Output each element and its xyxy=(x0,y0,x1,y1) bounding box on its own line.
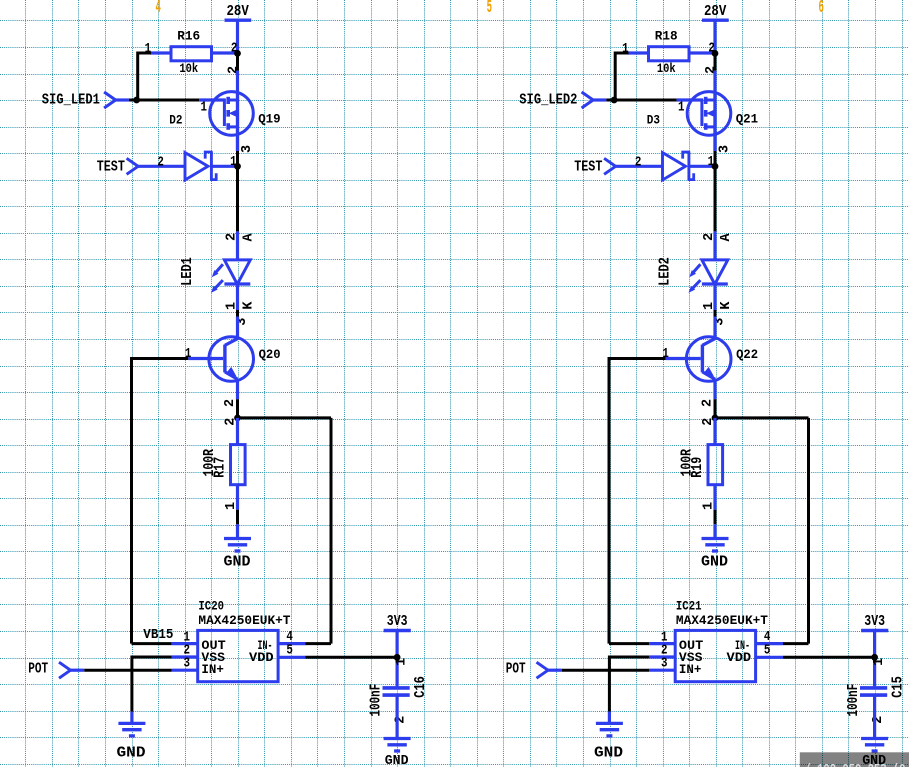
pin K label LED1 cathode (rotated) xyxy=(242,301,257,310)
ground symbol GND below C16 xyxy=(384,739,411,752)
wire R18 pin1 stub xyxy=(628,51,649,54)
pin 2 stub IC20 VSS xyxy=(172,644,198,659)
wire R19 pin2 stub xyxy=(713,418,716,445)
node junction SIG_LED2 xyxy=(611,97,618,104)
wire GND stem xyxy=(713,524,716,537)
overlay status bar (bottom right) xyxy=(800,752,909,767)
pin 3 label Q21 source (rotated) xyxy=(717,145,732,153)
svg-text:Q21: Q21 xyxy=(736,111,758,126)
wire Q19 source to TEST node (black) xyxy=(236,135,239,166)
svg-text:2: 2 xyxy=(701,399,716,407)
frame column label 4 (orange) xyxy=(156,0,161,18)
wire Q22 base down to IC21 OUT (black) xyxy=(609,357,649,644)
wire emitter node to IC21 IN- (black) xyxy=(715,418,809,644)
svg-text:MAX4250EUK+T: MAX4250EUK+T xyxy=(198,613,290,628)
svg-text:2: 2 xyxy=(157,156,164,171)
svg-text:LED1: LED1 xyxy=(180,257,196,286)
power supply 3V3 net xyxy=(861,614,888,686)
pin 1 label LED1 (rotated) xyxy=(224,302,239,310)
pin 3 label Q22 collector (rotated) xyxy=(712,318,727,326)
pin 4 stub IC20 IN- xyxy=(278,630,305,645)
node junction Q22 emitter / R19 xyxy=(712,415,719,422)
svg-text:10k: 10k xyxy=(657,61,676,76)
wire R17 pin1 stub xyxy=(236,485,239,510)
pin 2 label Q21 drain (rotated) xyxy=(704,66,719,74)
net label TEST xyxy=(574,159,602,175)
pin 1 label Q21 gate xyxy=(678,100,685,115)
svg-text:VB15: VB15 xyxy=(143,628,173,643)
pin 3 stub IC20 IN+ xyxy=(172,656,198,671)
pin 3 label Q20 collector (rotated) xyxy=(235,318,250,326)
node junction TEST / LED anode xyxy=(234,163,241,170)
label Q21 xyxy=(736,111,758,126)
svg-text:2: 2 xyxy=(223,399,238,407)
wire Q20 base stub xyxy=(188,357,223,360)
input pin arrow TEST xyxy=(604,158,616,174)
wire Q21 drain stub xyxy=(713,71,716,151)
label GND xyxy=(117,745,146,761)
resistor R19 100R xyxy=(678,445,722,485)
pin 3 stub IC21 IN+ xyxy=(649,656,675,671)
input pin arrow POT xyxy=(537,662,549,678)
wire Q19 drain stub xyxy=(236,71,239,151)
frame column label 5 (orange) xyxy=(487,0,492,18)
label GND xyxy=(224,555,251,571)
input pin arrow SIG_LED2 xyxy=(582,92,594,108)
net label SIG_LED1 xyxy=(42,93,100,109)
svg-text:GND: GND xyxy=(224,555,251,571)
wire IC21 VDD to 3V3 node (black) xyxy=(783,656,875,659)
pin 2 label Q19 drain (rotated) xyxy=(227,66,242,74)
pin 5 stub IC20 VDD xyxy=(278,644,305,659)
wire GND stem below VSS xyxy=(130,712,133,723)
wire SIG_LED1 net xyxy=(116,98,226,101)
label Q19 xyxy=(258,111,280,126)
svg-text:28V: 28V xyxy=(227,4,250,20)
svg-text:1: 1 xyxy=(872,658,887,666)
node junction R16.2 / 28V xyxy=(234,50,241,57)
pin 1 label R17 (rotated) xyxy=(224,502,239,510)
pin 4 stub IC21 IN- xyxy=(756,630,783,645)
op-amp IC20 MAX4250EUK+T xyxy=(198,599,291,682)
svg-text:1: 1 xyxy=(224,502,239,510)
svg-text:/ 102 050 253 (0: / 102 050 253 (0 xyxy=(805,763,906,767)
svg-text:VDD: VDD xyxy=(727,650,752,665)
label GND xyxy=(594,745,623,761)
wire POT net to IC20 IN+ xyxy=(71,669,172,672)
pin 1 label Q22 base xyxy=(662,347,669,362)
wire emitter node to IC20 IN- (black) xyxy=(238,418,332,644)
svg-text:R17: R17 xyxy=(212,457,229,478)
svg-text:LED2: LED2 xyxy=(658,257,674,286)
transistor Q21 P-MOSFET xyxy=(687,92,731,136)
node junction SIG_LED1 xyxy=(133,97,140,104)
svg-text:K: K xyxy=(242,301,257,310)
pin 1 label D3 xyxy=(708,155,715,170)
pin 1 label LED2 (rotated) xyxy=(702,302,717,310)
frame column label 6 (orange) xyxy=(819,0,824,18)
svg-text:IN+: IN+ xyxy=(679,662,702,677)
svg-text:SIG_LED1: SIG_LED1 xyxy=(42,93,100,109)
svg-text:GND: GND xyxy=(117,745,146,761)
svg-text:TEST: TEST xyxy=(97,159,125,175)
zener diode D2 xyxy=(185,151,216,180)
svg-text:D2: D2 xyxy=(169,112,182,127)
wire TEST node to LED2 anode (black) xyxy=(714,166,717,231)
input pin arrow SIG_LED1 xyxy=(104,92,116,108)
op-amp IC21 MAX4250EUK+T xyxy=(675,599,768,682)
wire GND stem xyxy=(236,524,239,537)
wire R19 to GND (black) xyxy=(714,510,717,525)
wire TEST node to LED1 anode (black) xyxy=(236,166,239,231)
svg-text:R19: R19 xyxy=(689,457,706,478)
svg-text:10k: 10k xyxy=(179,61,198,76)
ground symbol GND below IC21 xyxy=(596,723,623,736)
svg-text:VDD: VDD xyxy=(249,650,274,665)
svg-text:GND: GND xyxy=(385,753,409,767)
pin 1 stub IC21 OUT xyxy=(649,630,675,645)
wire Q20 base net (black) xyxy=(132,357,189,360)
zener diode D3 xyxy=(663,151,694,180)
pin 2 label Q20 emitter (rotated) xyxy=(223,399,238,407)
svg-text:1: 1 xyxy=(201,100,208,115)
label LED1 (rotated) xyxy=(180,257,196,286)
pin 1 label C16 (rotated) xyxy=(395,658,410,666)
resistor R18 10k xyxy=(622,29,715,77)
pin 2 label C16 (rotated) xyxy=(393,716,408,724)
ground symbol GND below R19 xyxy=(702,539,729,552)
pin 2 stub IC21 VSS xyxy=(649,644,675,659)
wire C16 to GND xyxy=(396,695,399,737)
ground symbol GND below C15 xyxy=(861,739,888,752)
wire IC20 VSS to GND (black) xyxy=(132,656,172,712)
svg-text:1: 1 xyxy=(395,658,410,666)
resistor R17 100R xyxy=(201,445,245,485)
pin 2 label D3 xyxy=(635,156,642,171)
pin 2 label Q22 emitter (rotated) xyxy=(701,399,716,407)
wire TEST net to D3 anode xyxy=(616,165,663,168)
svg-text:100nF: 100nF xyxy=(845,684,862,717)
svg-text:5: 5 xyxy=(487,0,492,18)
wire R19 pin1 stub xyxy=(713,485,716,510)
input pin arrow POT xyxy=(59,662,71,678)
svg-text:2: 2 xyxy=(635,156,642,171)
svg-text:4: 4 xyxy=(156,0,161,18)
label D3 xyxy=(647,112,660,127)
wire LED2 cathode to Q22 collector (black) xyxy=(714,310,717,317)
pin 2 label LED2 (rotated) xyxy=(702,233,717,241)
svg-text:A: A xyxy=(242,233,257,242)
wire Q20 emitter to node (black) xyxy=(236,399,239,418)
wire Q20 collector stub xyxy=(236,317,239,340)
svg-text:R18: R18 xyxy=(655,29,678,44)
wire R17 to GND (black) xyxy=(236,510,239,525)
wire LED1 anode stub xyxy=(236,231,239,260)
svg-text:2: 2 xyxy=(704,66,719,74)
wire LED2 cathode stub xyxy=(713,286,716,310)
capacitor C15 100nF xyxy=(845,676,907,716)
wire C15 to GND xyxy=(873,695,876,737)
power supply 28V net (x+477.5) xyxy=(702,4,729,53)
wire corner R18.1 to SIG_LED2 net xyxy=(615,52,628,101)
wire Q20 emitter stub xyxy=(236,379,239,399)
label GND xyxy=(385,753,409,767)
wire Q22 base net (black) xyxy=(609,357,666,360)
pin 1 label R19 (rotated) xyxy=(702,502,717,510)
transistor Q19 P-MOSFET xyxy=(210,92,254,136)
pin 2 label R19 (rotated) xyxy=(701,418,716,426)
label Q20 xyxy=(259,347,281,362)
label GND xyxy=(701,555,728,571)
svg-text:Q20: Q20 xyxy=(259,347,281,362)
node junction 3V3 / C15 xyxy=(871,654,878,661)
wire LED1 cathode stub xyxy=(236,286,239,310)
wire R17 pin2 stub xyxy=(236,418,239,445)
label Q22 xyxy=(736,347,758,362)
svg-text:C15: C15 xyxy=(890,676,907,698)
wire Q22 emitter stub xyxy=(713,379,716,399)
wire POT net to IC21 IN+ xyxy=(548,669,649,672)
power supply 28V net (x+0) xyxy=(225,4,252,53)
svg-text:28V: 28V xyxy=(704,4,727,20)
svg-text:TEST: TEST xyxy=(574,159,602,175)
svg-text:GND: GND xyxy=(701,555,728,571)
pin 1 label Q19 gate xyxy=(201,100,208,115)
svg-text:1: 1 xyxy=(224,302,239,310)
net label VB15 xyxy=(143,628,173,643)
svg-text:K: K xyxy=(719,301,734,310)
wire LED2 anode stub xyxy=(713,231,716,260)
svg-text:1: 1 xyxy=(702,502,717,510)
wire Q21 source to TEST node (black) xyxy=(713,135,716,166)
wire 28V node to Q19 drain (black) xyxy=(236,53,239,70)
net label POT xyxy=(28,661,48,677)
svg-text:Q22: Q22 xyxy=(736,347,758,362)
pin 2 label C15 (rotated) xyxy=(871,716,886,724)
wire IC20 VDD to 3V3 node (black) xyxy=(306,656,398,659)
wire D2 cathode stub xyxy=(211,165,237,168)
wire 28V node to Q21 drain (black) xyxy=(714,53,717,70)
pin 5 stub IC21 VDD xyxy=(756,644,783,659)
transistor Q22 NPN xyxy=(686,337,731,382)
label D2 xyxy=(169,112,182,127)
wire SIG_LED2 net xyxy=(593,98,703,101)
svg-text:GND: GND xyxy=(594,745,623,761)
wire IC21 VSS to GND (black) xyxy=(609,656,649,712)
pin A label LED1 anode (rotated) xyxy=(242,233,257,242)
wire R18 pin2 stub xyxy=(689,51,715,54)
ground symbol GND below R17 xyxy=(224,539,251,552)
wire R16 pin2 stub xyxy=(212,51,238,54)
svg-text:3: 3 xyxy=(717,145,732,153)
svg-text:6: 6 xyxy=(819,0,824,18)
svg-text:1: 1 xyxy=(678,100,685,115)
svg-text:R16: R16 xyxy=(177,29,200,44)
wire LED1 cathode to Q20 collector (black) xyxy=(236,310,239,317)
pin 3 label Q19 source (rotated) xyxy=(240,145,255,153)
svg-text:3: 3 xyxy=(240,145,255,153)
svg-text:A: A xyxy=(719,233,734,242)
pin 1 label Q20 base xyxy=(185,347,192,362)
pin 1 label D2 xyxy=(230,155,237,170)
power supply 3V3 net xyxy=(384,614,411,686)
node junction R18.2 / 28V xyxy=(712,50,719,57)
pin 2 label LED1 (rotated) xyxy=(225,233,240,241)
label LED2 (rotated) xyxy=(658,257,674,286)
label GND xyxy=(862,753,886,767)
node junction Q20 emitter / R17 xyxy=(234,415,241,422)
wire Q20 base down to IC20 OUT (black) xyxy=(132,357,172,644)
wire Q22 collector stub xyxy=(713,317,716,340)
wire R16 pin1 stub xyxy=(150,51,171,54)
LED LED2 xyxy=(689,260,728,293)
svg-text:SIG_LED2: SIG_LED2 xyxy=(519,93,577,109)
svg-text:3V3: 3V3 xyxy=(864,614,885,630)
svg-text:POT: POT xyxy=(506,661,526,677)
svg-text:MAX4250EUK+T: MAX4250EUK+T xyxy=(676,613,768,628)
LED LED1 xyxy=(211,260,250,293)
transistor Q20 NPN xyxy=(209,337,254,382)
svg-text:2: 2 xyxy=(227,66,242,74)
svg-text:3V3: 3V3 xyxy=(387,614,408,630)
node junction 3V3 / C16 xyxy=(394,654,401,661)
wire GND stem below VSS xyxy=(608,712,611,723)
wire TEST net to D2 anode xyxy=(138,165,185,168)
pin 2 label R17 (rotated) xyxy=(224,418,239,426)
svg-text:D3: D3 xyxy=(647,112,660,127)
pin K label LED2 cathode (rotated) xyxy=(719,301,734,310)
net label SIG_LED2 xyxy=(519,93,577,109)
net label POT xyxy=(506,661,526,677)
resistor R16 10k xyxy=(145,29,238,77)
pin 1 stub IC20 OUT xyxy=(172,630,198,645)
wire Q22 base stub xyxy=(666,357,701,360)
svg-text:IC20: IC20 xyxy=(198,599,224,614)
pin 1 label C15 (rotated) xyxy=(872,658,887,666)
svg-text:Q19: Q19 xyxy=(258,111,280,126)
ground symbol GND below IC20 xyxy=(118,723,145,736)
pin A label LED2 anode (rotated) xyxy=(719,233,734,242)
wire corner R16.1 to SIG_LED1 net xyxy=(138,52,151,101)
svg-text:IN+: IN+ xyxy=(201,662,224,677)
svg-text:IC21: IC21 xyxy=(676,599,702,614)
capacitor C16 100nF xyxy=(368,676,430,716)
wire Q22 emitter to node (black) xyxy=(714,399,717,418)
svg-text:100nF: 100nF xyxy=(368,684,385,717)
svg-text:POT: POT xyxy=(28,661,48,677)
svg-text:C16: C16 xyxy=(412,676,429,698)
node junction TEST / LED anode xyxy=(712,163,719,170)
net label TEST xyxy=(97,159,125,175)
input pin arrow TEST xyxy=(127,158,139,174)
svg-text:1: 1 xyxy=(702,302,717,310)
pin 2 label D2 xyxy=(157,156,164,171)
wire D3 cathode stub xyxy=(689,165,715,168)
